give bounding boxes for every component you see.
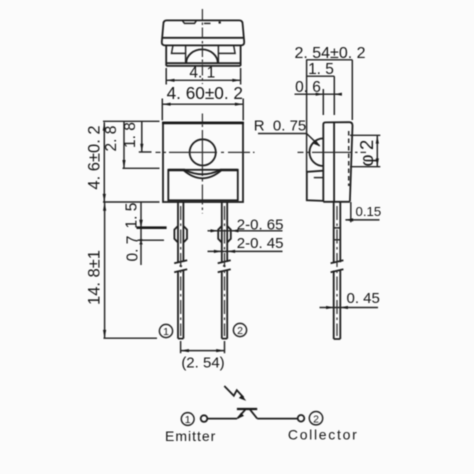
svg-text:1. 5: 1. 5 bbox=[124, 203, 141, 229]
dimension 0.15 arrow bbox=[345, 218, 353, 221]
dimension 4.6 arrows bbox=[103, 122, 106, 130]
schematic pin 2 balloon bbox=[309, 412, 322, 425]
dimension 4.1 line bbox=[166, 79, 240, 81]
dimension phi2 line bbox=[376, 135, 378, 166]
schematic collector wire bbox=[257, 418, 298, 420]
lead 2 lower bbox=[222, 271, 227, 339]
dimension 4.1 extension lines bbox=[166, 68, 240, 85]
svg-text:2-0. 65: 2-0. 65 bbox=[237, 217, 284, 234]
label 2-0.45 arrows bbox=[214, 250, 222, 253]
schematic emitter terminal bbox=[201, 415, 208, 422]
top view center line bbox=[201, 9, 203, 84]
side view lead center line bbox=[336, 206, 338, 336]
dimension 1.8 arrow bbox=[140, 144, 143, 152]
svg-text:4. 6±0. 2: 4. 6±0. 2 bbox=[86, 125, 104, 189]
svg-text:0. 7: 0. 7 bbox=[125, 236, 142, 262]
svg-text:2-0. 45: 2-0. 45 bbox=[237, 235, 284, 252]
svg-text:1. 5: 1. 5 bbox=[308, 61, 334, 78]
lead 2 shoulder bbox=[218, 226, 231, 242]
lead 1 lower bbox=[178, 271, 183, 339]
dimension 4.60 arrows bbox=[162, 103, 170, 106]
svg-text:(2. 54): (2. 54) bbox=[181, 355, 224, 372]
dimension 4.60 line bbox=[162, 103, 243, 105]
side view lens band bbox=[307, 171, 324, 201]
side view dimension 2.54 extension lines bbox=[307, 60, 353, 172]
front view lens band top edge thick bbox=[168, 169, 238, 171]
dimension 2.54 line bbox=[181, 350, 225, 352]
front view mounting hole bbox=[190, 139, 216, 165]
side view dimension 0.6 line bbox=[295, 93, 338, 95]
label 2-0.65 arrows bbox=[211, 229, 219, 232]
side view dimension 1.5 line bbox=[306, 75, 334, 77]
lead 1 shoulder bbox=[174, 226, 187, 242]
side view dimension 0.6 extension line bbox=[322, 89, 324, 115]
svg-text:4. 60±0. 2: 4. 60±0. 2 bbox=[167, 83, 243, 103]
front view lens dip curve bbox=[184, 170, 222, 178]
top view small pin mark bbox=[219, 21, 221, 23]
top view ejector mark bbox=[204, 22, 211, 24]
dimension 4.6 line bbox=[103, 122, 105, 202]
side view lead bbox=[334, 202, 341, 339]
dimension 2.8 line bbox=[123, 121, 125, 168]
svg-text:Emitter: Emitter bbox=[165, 428, 216, 444]
dimension 4.60 extension lines bbox=[162, 99, 243, 121]
schematic collector terminal bbox=[298, 415, 305, 422]
lead 1 break mark bbox=[174, 260, 187, 272]
schematic base bar bbox=[237, 408, 257, 410]
top view dome lens arc bbox=[186, 49, 218, 63]
dimension 2.54 arrows bbox=[181, 349, 189, 352]
side view lead break mark bbox=[331, 260, 344, 272]
lead 2 upper bbox=[222, 203, 227, 263]
label R 0.75 arrow bbox=[314, 141, 321, 147]
dimension 0.15 extension line bbox=[350, 202, 352, 222]
svg-text:φ2: φ2 bbox=[356, 135, 377, 166]
schematic pin 1 balloon bbox=[181, 413, 194, 426]
label 2-0.45 leader line bbox=[208, 250, 283, 252]
schematic emitter lead bbox=[238, 410, 246, 419]
top view lens housing bbox=[166, 45, 240, 66]
side view hidden line bbox=[348, 131, 350, 186]
front view body top edge thick bbox=[162, 122, 244, 125]
svg-text:2: 2 bbox=[237, 325, 243, 337]
lead 1 upper bbox=[178, 203, 183, 263]
svg-text:2: 2 bbox=[313, 413, 319, 425]
front view horizontal center line bbox=[156, 151, 255, 153]
dimension 0.7 arrow bbox=[139, 241, 143, 245]
schematic light arrow bbox=[224, 386, 243, 398]
dimension 1.8 extension line bbox=[139, 151, 152, 153]
side view parting line bbox=[333, 122, 335, 202]
dimension 1.5 left line bbox=[140, 202, 142, 265]
svg-text:4. 1: 4. 1 bbox=[189, 65, 215, 82]
label 2-0.65 leader line bbox=[208, 230, 283, 232]
svg-text:0.15: 0.15 bbox=[356, 204, 382, 219]
dimension 1.5 left arrow bbox=[139, 220, 143, 228]
side view dimension 2.54 line bbox=[306, 59, 352, 61]
svg-text:1. 8: 1. 8 bbox=[122, 122, 139, 148]
svg-text:Collector: Collector bbox=[288, 427, 359, 443]
top view gate mark bbox=[183, 21, 197, 24]
side view dome lens bbox=[310, 138, 324, 166]
lead 1 center line bbox=[180, 206, 182, 336]
side view dimension 0.6 arrows bbox=[316, 93, 324, 96]
schematic collector lead bbox=[250, 409, 257, 418]
dimension phi2 extension lines bbox=[350, 135, 380, 166]
dimension 14.8 bottom extension line bbox=[104, 337, 158, 339]
top view housing wings bbox=[172, 46, 236, 54]
pin 2 balloon bbox=[233, 323, 246, 336]
svg-text:1: 1 bbox=[185, 414, 191, 426]
lead 1 break dash bbox=[180, 265, 182, 266]
dimension 2.54 extension ticks bbox=[181, 341, 225, 353]
front view lens band bbox=[168, 170, 238, 201]
svg-text:14. 8±1: 14. 8±1 bbox=[86, 250, 104, 305]
dimension 14.8 line bbox=[104, 202, 106, 338]
dimension 1.5 left extension line thick bbox=[137, 226, 167, 229]
dimension 1.8 line bbox=[141, 121, 143, 152]
side view lead shoulder ticks bbox=[334, 228, 341, 240]
pin 1 balloon bbox=[159, 324, 172, 337]
schematic emitter arrow bbox=[237, 413, 244, 420]
schematic emitter wire bbox=[207, 418, 237, 420]
top view lens barrel sides bbox=[186, 46, 219, 64]
dimension 4.1 arrows bbox=[166, 79, 174, 82]
lead 2 break dash bbox=[223, 265, 225, 266]
svg-text:R 0. 75: R 0. 75 bbox=[254, 118, 307, 135]
dimension 0.7 extension line bbox=[138, 239, 165, 241]
front view lens dip inner curve bbox=[186, 170, 220, 174]
label R 0.75 leader bbox=[258, 134, 320, 146]
front view vertical center line bbox=[201, 114, 203, 214]
dimension 0.15 line bbox=[346, 219, 380, 221]
dimension 0.45 arrows bbox=[326, 306, 334, 309]
side view band notch bbox=[314, 177, 324, 179]
dimension 4.6 extension lines bbox=[103, 121, 160, 202]
svg-text:1: 1 bbox=[163, 326, 169, 338]
top view outline bbox=[162, 20, 244, 45]
side view body outline bbox=[323, 122, 352, 202]
dimension 0.45 line bbox=[320, 307, 379, 309]
dimension phi2 arrows bbox=[376, 135, 379, 143]
side view dimension 1.5 extension line bbox=[333, 76, 335, 115]
dimension 14.8 arrows bbox=[103, 202, 106, 210]
lead 2 break mark bbox=[218, 260, 231, 272]
svg-text:2. 8: 2. 8 bbox=[103, 126, 120, 152]
front view body bbox=[163, 123, 243, 202]
side view center line bbox=[298, 151, 367, 153]
svg-text:0. 45: 0. 45 bbox=[347, 290, 380, 307]
top view parting line bbox=[162, 37, 244, 39]
lead 2 center line bbox=[224, 206, 226, 336]
dimension 2.8 extension line bbox=[123, 167, 160, 169]
dimension 2.8 arrow bbox=[122, 160, 125, 168]
